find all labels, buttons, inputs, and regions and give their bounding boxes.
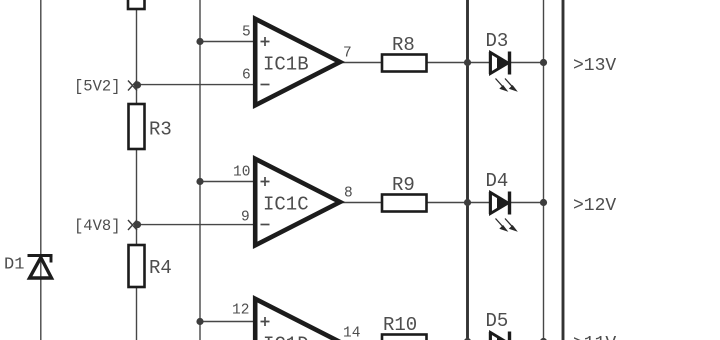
svg-text:D4: D4	[486, 170, 509, 192]
svg-text:R10: R10	[383, 314, 417, 336]
svg-text:12: 12	[232, 303, 249, 319]
svg-text:14: 14	[343, 326, 360, 340]
svg-text:IC1C: IC1C	[263, 194, 309, 216]
svg-text:D3: D3	[486, 30, 509, 52]
svg-text:D5: D5	[486, 310, 509, 332]
svg-text:8: 8	[344, 186, 353, 202]
svg-text:>13V: >13V	[573, 56, 616, 76]
svg-text:R4: R4	[149, 257, 172, 279]
svg-text:[5V2]: [5V2]	[74, 78, 121, 96]
svg-text:10: 10	[233, 165, 250, 181]
svg-text:IC1D: IC1D	[263, 334, 309, 340]
svg-text:6: 6	[242, 68, 251, 84]
svg-text:IC1B: IC1B	[263, 54, 309, 76]
svg-text:5: 5	[242, 25, 251, 41]
svg-text:D1: D1	[4, 256, 24, 275]
svg-text:R8: R8	[392, 34, 415, 56]
svg-text:>11V: >11V	[573, 334, 616, 340]
svg-text:[4V8]: [4V8]	[74, 217, 121, 235]
svg-text:9: 9	[241, 210, 250, 226]
svg-text:R3: R3	[149, 119, 172, 141]
svg-text:R9: R9	[392, 174, 415, 196]
svg-text:>12V: >12V	[573, 196, 616, 216]
svg-text:7: 7	[343, 46, 352, 62]
